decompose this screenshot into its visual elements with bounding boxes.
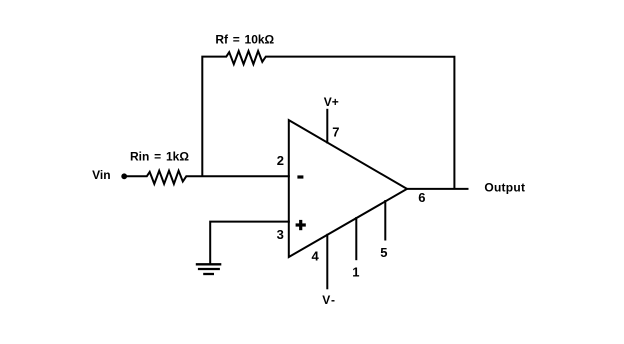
svg-text:Output: Output <box>484 181 525 195</box>
svg-text:2: 2 <box>277 153 284 168</box>
svg-text:Vin: Vin <box>92 168 110 182</box>
svg-text:1: 1 <box>352 264 359 279</box>
svg-text:5: 5 <box>380 245 387 260</box>
svg-text:Rin = 1kΩ: Rin = 1kΩ <box>130 150 189 164</box>
svg-text:V+: V+ <box>324 95 339 109</box>
svg-text:7: 7 <box>332 125 339 140</box>
svg-text:Rf = 10kΩ: Rf = 10kΩ <box>215 33 274 47</box>
svg-text:4: 4 <box>312 248 320 263</box>
svg-text:V-: V- <box>322 293 335 307</box>
svg-text:3: 3 <box>277 227 284 242</box>
svg-text:6: 6 <box>418 190 425 205</box>
